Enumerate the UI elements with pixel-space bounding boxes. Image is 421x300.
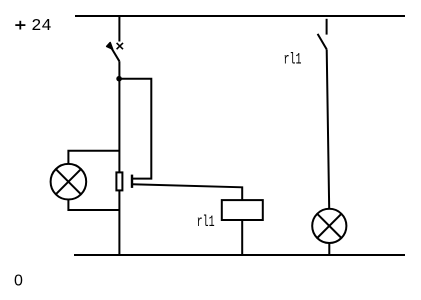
svg-text:0: 0 (14, 273, 23, 290)
svg-text:24: 24 (31, 17, 51, 36)
svg-text:rl1: rl1 (197, 213, 215, 231)
svg-text:rl1: rl1 (284, 51, 302, 69)
